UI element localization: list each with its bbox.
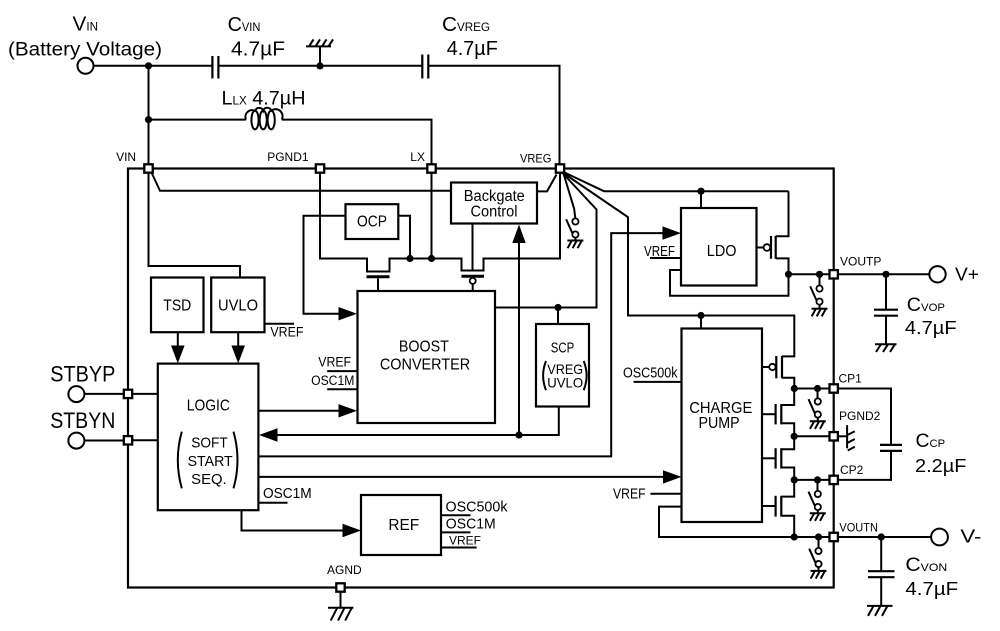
svg-text:PGND2: PGND2 bbox=[839, 409, 881, 423]
svg-text:OCP: OCP bbox=[357, 214, 387, 231]
svg-text:TSD: TSD bbox=[163, 298, 191, 315]
svg-text:V+: V+ bbox=[955, 265, 979, 285]
svg-text:4.7µF: 4.7µF bbox=[905, 317, 957, 338]
svg-text:BOOST: BOOST bbox=[399, 338, 449, 355]
svg-text:VREF: VREF bbox=[449, 533, 481, 547]
svg-text:OSC1M: OSC1M bbox=[263, 486, 312, 502]
svg-text:VOUTN: VOUTN bbox=[839, 521, 878, 535]
svg-text:(Battery Voltage): (Battery Voltage) bbox=[8, 40, 162, 61]
svg-text:REF: REF bbox=[388, 517, 419, 534]
svg-text:SEQ.: SEQ. bbox=[191, 472, 227, 488]
svg-text:OSC1M: OSC1M bbox=[311, 373, 354, 388]
svg-text:VREF: VREF bbox=[644, 244, 675, 260]
svg-text:Control: Control bbox=[471, 204, 518, 221]
svg-text:OSC500k: OSC500k bbox=[623, 366, 678, 382]
svg-text:VREF: VREF bbox=[270, 324, 303, 339]
svg-text:PUMP: PUMP bbox=[699, 415, 740, 432]
svg-text:LOGIC: LOGIC bbox=[187, 397, 230, 414]
svg-text:4.7µF: 4.7µF bbox=[447, 37, 498, 60]
svg-text:OSC1M: OSC1M bbox=[446, 517, 496, 533]
svg-text:UVLO: UVLO bbox=[218, 298, 258, 315]
svg-text:OSC500k: OSC500k bbox=[446, 500, 509, 516]
svg-text:LDO: LDO bbox=[707, 243, 737, 260]
svg-text:LX: LX bbox=[410, 150, 425, 164]
svg-text:4.7µF: 4.7µF bbox=[905, 578, 958, 599]
svg-text:CP2: CP2 bbox=[840, 463, 864, 477]
svg-text:VREG: VREG bbox=[520, 152, 551, 166]
svg-text:2.2µF: 2.2µF bbox=[915, 455, 967, 476]
svg-text:SCP: SCP bbox=[551, 340, 574, 356]
svg-text:PGND1: PGND1 bbox=[267, 150, 309, 164]
svg-text:VOUTP: VOUTP bbox=[840, 255, 881, 269]
svg-text:CP1: CP1 bbox=[839, 371, 863, 385]
svg-text:VREF: VREF bbox=[318, 354, 351, 369]
svg-text:UVLO: UVLO bbox=[547, 374, 583, 390]
svg-text:STBYP: STBYP bbox=[50, 361, 115, 386]
svg-text:SOFT: SOFT bbox=[191, 435, 228, 451]
svg-text:V-: V- bbox=[960, 527, 981, 547]
svg-text:4.7µF: 4.7µF bbox=[231, 37, 285, 60]
svg-text:START: START bbox=[188, 454, 233, 470]
svg-text:AGND: AGND bbox=[327, 563, 362, 577]
svg-text:Backgate: Backgate bbox=[464, 188, 525, 205]
svg-text:VIN: VIN bbox=[116, 150, 136, 164]
svg-text:CONVERTER: CONVERTER bbox=[380, 356, 470, 373]
svg-text:STBYN: STBYN bbox=[50, 408, 115, 433]
svg-text:VREF: VREF bbox=[613, 486, 646, 502]
